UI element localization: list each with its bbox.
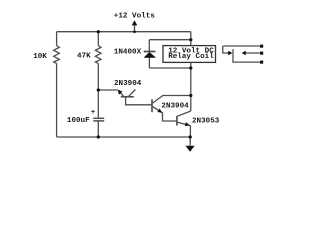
svg-text:1N400X: 1N400X [114,49,142,57]
svg-text:Relay Coil: Relay Coil [168,53,214,61]
svg-text:47K: 47K [77,53,91,61]
svg-text:2N3904: 2N3904 [161,103,189,111]
svg-text:+: + [91,109,96,117]
svg-text:2N3053: 2N3053 [192,117,220,125]
svg-text:10K: 10K [33,53,47,61]
svg-text:100uF: 100uF [67,117,90,125]
svg-text:+12 Volts: +12 Volts [114,12,155,20]
svg-text:2N3904: 2N3904 [114,80,142,88]
